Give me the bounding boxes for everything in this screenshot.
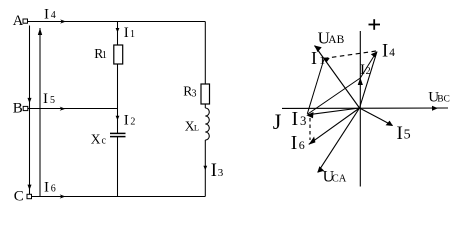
svg-text:I: I — [360, 62, 365, 78]
svg-text:2: 2 — [366, 66, 371, 77]
svg-text:I: I — [211, 161, 217, 181]
svg-text:I: I — [44, 7, 49, 23]
svg-text:I: I — [124, 25, 129, 41]
svg-text:I: I — [397, 123, 403, 144]
svg-text:I: I — [311, 48, 317, 68]
svg-text:3: 3 — [218, 167, 224, 179]
svg-text:I: I — [291, 133, 298, 154]
svg-text:I: I — [44, 180, 49, 196]
svg-text:AB: AB — [328, 34, 344, 46]
svg-text:5: 5 — [404, 128, 411, 143]
svg-text:B: B — [13, 101, 23, 117]
svg-text:3: 3 — [192, 89, 197, 100]
svg-text:X: X — [91, 131, 101, 146]
svg-text:I: I — [382, 42, 388, 62]
svg-text:1: 1 — [102, 50, 107, 61]
svg-text:J: J — [273, 109, 282, 134]
svg-text:C: C — [14, 188, 24, 204]
svg-text:I: I — [292, 108, 299, 130]
svg-text:A: A — [13, 13, 24, 29]
svg-text:BC: BC — [437, 94, 450, 104]
svg-text:2: 2 — [130, 117, 135, 128]
svg-text:c: c — [102, 135, 107, 146]
svg-text:4: 4 — [51, 10, 56, 21]
svg-text:1: 1 — [319, 53, 325, 67]
svg-text:6: 6 — [51, 184, 56, 195]
svg-text:1: 1 — [130, 29, 135, 40]
svg-text:L: L — [194, 123, 199, 133]
svg-text:5: 5 — [50, 95, 55, 106]
svg-text:I: I — [124, 113, 129, 129]
svg-text:4: 4 — [389, 47, 395, 59]
svg-text:CA: CA — [332, 174, 347, 185]
svg-text:6: 6 — [299, 138, 305, 152]
svg-text:3: 3 — [300, 114, 306, 128]
svg-text:I: I — [43, 91, 48, 107]
